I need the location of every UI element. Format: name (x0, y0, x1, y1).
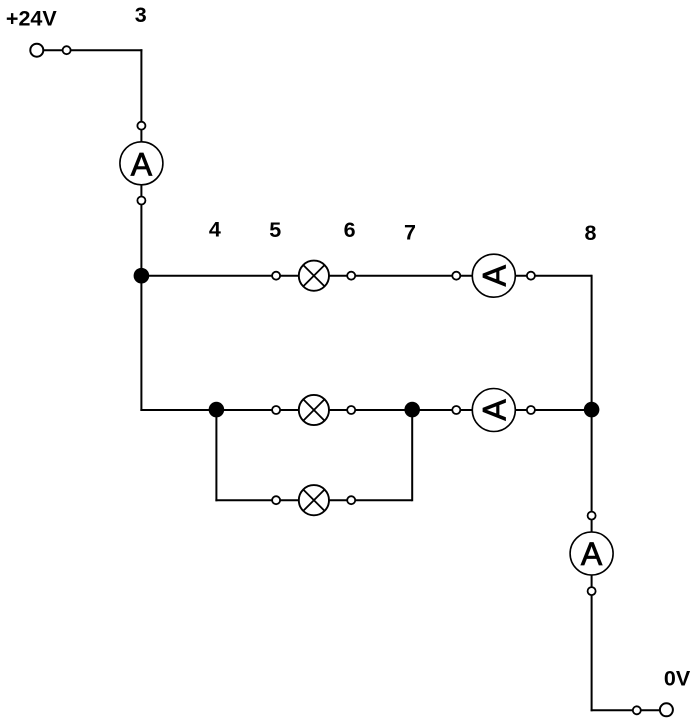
ammeter A1 (120, 142, 163, 185)
terminal: +24V supply (30, 44, 43, 57)
wire: +24V terminal to top pin (37, 49, 67, 51)
svg-text:+24V: +24V (6, 7, 57, 31)
pin: row 2 left of lamp E2 (272, 406, 280, 414)
pin: row 2 right of ammeter A3 (527, 406, 535, 414)
svg-text:A: A (476, 264, 512, 286)
junction: row 2 node 7 (404, 402, 420, 418)
wire: row 2 horizontal (node 4 to node 7 to ammeter to node 8) (216, 409, 591, 411)
pin: row 1 left of ammeter A2 (452, 272, 460, 280)
wire: row 3 horizontal through lamp (215, 499, 412, 501)
lamp E3 (row 3) (299, 485, 329, 515)
svg-text:A: A (581, 536, 603, 572)
wire: right vertical node 8 from row 1 down to row 2 junction (591, 275, 593, 410)
wire: branch 3 right vertical up to node 7 (411, 410, 413, 501)
wire: row 2 left stub to junction node 4 (140, 409, 216, 411)
wire: branch 3 left vertical down from node 4 (215, 410, 217, 501)
svg-text:8: 8 (585, 221, 597, 245)
pin: above ammeter A4 (588, 512, 596, 520)
pin: below ammeter A1 (137, 197, 145, 205)
wire: vertical node 3 down to ammeter A1 (140, 49, 142, 163)
pin: below ammeter A4 (588, 587, 596, 595)
pin: row 1 right of ammeter A2 (527, 272, 535, 280)
wire: bottom horizontal to 0V terminal (591, 709, 667, 711)
junction: row 2 node 8 (584, 402, 600, 418)
pin: row 2 right of lamp E2 (347, 406, 355, 414)
pin: node 6 (row 1, right of lamp E1) (347, 272, 355, 280)
svg-text:0V: 0V (664, 666, 691, 690)
terminal: 0V (660, 703, 673, 716)
pin: row 3 right of lamp E3 (347, 496, 355, 504)
wire: row 1 horizontal (junction to lamp to ammeter to right corner) (141, 275, 591, 277)
ammeter A4 (570, 532, 613, 575)
svg-text:5: 5 (269, 218, 281, 242)
wire: ammeter A1 down to row-1 junction (140, 163, 142, 276)
lamp E1 (row 1) (299, 261, 329, 291)
svg-text:7: 7 (404, 221, 416, 245)
pin: node 5 (row 1, left of lamp E1) (272, 272, 280, 280)
junction: row 2 node 4 (209, 402, 225, 418)
svg-text:A: A (476, 399, 512, 421)
pin: row 3 left of lamp E3 (272, 496, 280, 504)
lamp E2 (row 2) (299, 395, 329, 425)
wire: node 8 vertical down to ammeter A4 (591, 410, 593, 554)
ammeter A3 (row 2, A rotated) (472, 389, 515, 432)
wire: left vertical from row-1 junction down to row 2 (140, 276, 142, 411)
svg-text:4: 4 (209, 218, 221, 242)
pin: left of 0V terminal (633, 706, 641, 714)
pin: connector circle right of +24V terminal (63, 46, 71, 54)
ammeter A2 (row 1, A rotated) (472, 254, 515, 297)
wire: ammeter A4 down to bottom corner (591, 554, 593, 712)
junction: row 1 left (below ammeter A1) (134, 268, 150, 284)
pin: row 2 left of ammeter A3 (452, 406, 460, 414)
wire: top horizontal from pin to corner at node 3 (67, 49, 143, 51)
pin: above ammeter A1 (137, 122, 145, 130)
svg-text:A: A (131, 147, 153, 183)
svg-text:3: 3 (135, 3, 147, 27)
svg-text:6: 6 (344, 218, 356, 242)
